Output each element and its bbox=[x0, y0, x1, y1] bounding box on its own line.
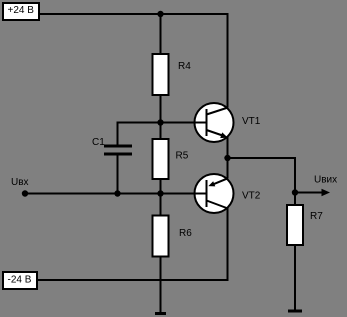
wire R5 bottom bbox=[160, 178, 162, 194]
wire VT1 emitter to junction bbox=[227, 137, 229, 158]
svg-text:R7: R7 bbox=[310, 211, 323, 222]
wire -24V rail bbox=[38, 279, 229, 281]
node rail/R4 junction bbox=[157, 11, 163, 17]
capacitor C1 bbox=[104, 146, 132, 154]
wire junction to VT2 emitter bbox=[227, 158, 229, 179]
ground (under R7) bbox=[288, 310, 302, 313]
wire input line bbox=[25, 193, 207, 195]
resistor R7 bbox=[287, 205, 303, 245]
input terminal bbox=[22, 190, 28, 196]
transistor VT1 bbox=[193, 103, 234, 142]
node output junction bbox=[292, 189, 298, 195]
svg-text:C1: C1 bbox=[92, 137, 105, 148]
-24V supply box bbox=[3, 272, 37, 289]
resistor R5 bbox=[153, 139, 169, 179]
wire VT2 collector bbox=[227, 208, 229, 281]
wire C1 top lead bbox=[117, 122, 119, 146]
wire C1 branch bbox=[118, 122, 161, 124]
svg-text:VT1: VT1 bbox=[242, 116, 261, 127]
svg-text:R5: R5 bbox=[176, 151, 189, 162]
wire R4 bottom bbox=[160, 94, 162, 123]
wire R7 top bbox=[294, 193, 296, 207]
+24V supply box bbox=[3, 3, 39, 20]
wire +24V rail bbox=[40, 13, 229, 15]
output arrow bbox=[295, 189, 330, 197]
svg-text:R4: R4 bbox=[178, 61, 191, 72]
svg-text:-24 В: -24 В bbox=[8, 275, 32, 286]
ground (under R6) bbox=[155, 312, 166, 315]
wire R6 top bbox=[160, 194, 162, 217]
wire R4 top bbox=[160, 13, 162, 55]
svg-text:Uвх: Uвх bbox=[11, 177, 29, 188]
wire output column down bbox=[294, 157, 296, 193]
wire VT1 base bbox=[161, 122, 207, 124]
wire emitter junction to output column bbox=[228, 157, 296, 159]
svg-text:Uвих: Uвих bbox=[314, 175, 337, 186]
wire C1 bottom lead bbox=[117, 155, 119, 194]
svg-text:+24 В: +24 В bbox=[8, 5, 35, 16]
wire R6 to ground bbox=[160, 256, 162, 313]
resistor R4 bbox=[153, 54, 169, 95]
resistor R6 bbox=[153, 216, 169, 257]
node R5/R6/input junction bbox=[157, 190, 163, 196]
transistor VT2 bbox=[193, 174, 234, 213]
node R4/R5/C1/VT1-base junction bbox=[157, 119, 163, 125]
node emitter junction bbox=[224, 155, 230, 161]
svg-text:R6: R6 bbox=[179, 228, 192, 239]
node C1/input junction bbox=[114, 190, 120, 196]
wire R7 to ground bbox=[294, 244, 296, 310]
wire VT1 collector bbox=[227, 13, 229, 108]
wire R5 top bbox=[160, 123, 162, 141]
svg-text:VT2: VT2 bbox=[242, 191, 261, 202]
